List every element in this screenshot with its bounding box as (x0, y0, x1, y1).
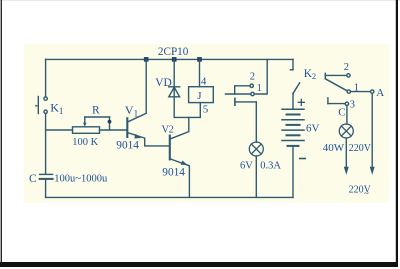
switch K2 pole b (selector) (325, 73, 374, 93)
svg-text:2: 2 (344, 62, 349, 73)
label contact 2 (250, 72, 255, 83)
svg-text:A: A (376, 87, 384, 99)
label J (197, 90, 202, 102)
lamp 6V 0.3A (249, 142, 263, 197)
label C (29, 173, 37, 185)
wire node A down to 220V (370, 93, 375, 175)
label 220V~ (mains) (349, 184, 372, 198)
relay common pole (235, 98, 256, 142)
svg-text:2: 2 (169, 125, 174, 136)
lamp 40W 220V (339, 124, 353, 175)
label R (92, 105, 100, 117)
label VD (155, 77, 172, 89)
transistor V2 (170, 117, 190, 197)
label V1 (125, 103, 138, 119)
label 100u~1000u (54, 174, 108, 185)
svg-text:C: C (338, 107, 345, 119)
svg-text:220V: 220V (349, 143, 372, 154)
label 220V (lamp) (349, 143, 372, 154)
svg-text:40W: 40W (323, 142, 345, 154)
label 6V (battery) (306, 122, 320, 134)
wire left rail from top corner down to K1 (45, 59, 47, 97)
svg-text:100u~1000u: 100u~1000u (54, 174, 108, 185)
relay coil J (189, 59, 214, 117)
svg-text:1: 1 (134, 109, 139, 119)
resistor R (100K potentiometer body) (73, 127, 100, 134)
label pin 5 (203, 103, 209, 115)
label 0.3A (260, 160, 281, 171)
svg-text:J: J (197, 90, 202, 102)
svg-text:2: 2 (312, 71, 316, 81)
label node A (376, 87, 384, 99)
label pin 4 (201, 75, 207, 87)
wire top supply rail 2CP10 (46, 58, 293, 60)
svg-text:K: K (50, 100, 59, 114)
label contact 1 (257, 83, 262, 94)
svg-text:0.3A: 0.3A (260, 160, 281, 171)
label 9014 (V2) (162, 167, 185, 179)
wire K1 bottom down to capacitor (45, 114, 47, 174)
label K2 (304, 68, 316, 81)
label terminal 2 (344, 62, 349, 73)
svg-text:4: 4 (201, 75, 207, 87)
label V2 (162, 124, 174, 135)
node junction rail / VD (172, 57, 177, 62)
capacitor C (40, 174, 53, 197)
relay contact armature (226, 84, 255, 96)
wire R to V1 base (100, 129, 127, 131)
svg-text:5: 5 (203, 103, 209, 115)
svg-text:R: R (92, 105, 100, 117)
label 40W (323, 142, 345, 154)
switch K2 pole a (290, 59, 299, 109)
svg-text:9014: 9014 (162, 167, 185, 179)
svg-text:V: V (125, 103, 134, 117)
diode VD (169, 59, 180, 117)
svg-text:3: 3 (350, 100, 355, 111)
label C (common) (338, 107, 345, 119)
label 6V (lamp) (240, 160, 253, 171)
label 9014 (V1) (116, 140, 139, 152)
wire bottom rail (46, 196, 293, 198)
potentiometer wiper bracket (83, 117, 111, 130)
svg-text:9014: 9014 (116, 140, 139, 152)
node junction rail / V1 collector (144, 57, 149, 62)
svg-text:2: 2 (250, 72, 255, 83)
svg-text:VD: VD (155, 77, 172, 89)
svg-text:100 K: 100 K (72, 137, 98, 148)
node junction rail / relay pin 4 (197, 57, 202, 62)
wire base branch from left rail to R (46, 129, 73, 131)
label 100 K (72, 137, 98, 148)
label terminal 3 (350, 100, 355, 111)
svg-text:~: ~ (364, 188, 369, 198)
terminal 3 bracket C (328, 98, 349, 124)
label 2CP10 (158, 46, 189, 58)
wire contact 1 to top rail (254, 59, 267, 94)
svg-text:2CP10: 2CP10 (158, 46, 189, 58)
label terminal 1 (354, 83, 359, 94)
battery 6V (282, 99, 305, 197)
svg-text:6V: 6V (306, 122, 320, 134)
wire VD/J junction to V2 collector (174, 116, 200, 118)
svg-text:1: 1 (59, 106, 64, 116)
label K1 (50, 100, 63, 116)
svg-text:6V: 6V (240, 160, 253, 171)
svg-text:1: 1 (257, 83, 262, 94)
transistor V1 (127, 59, 170, 145)
pushbutton K1 (35, 97, 47, 114)
svg-text:1: 1 (354, 83, 359, 94)
svg-text:C: C (29, 173, 37, 185)
